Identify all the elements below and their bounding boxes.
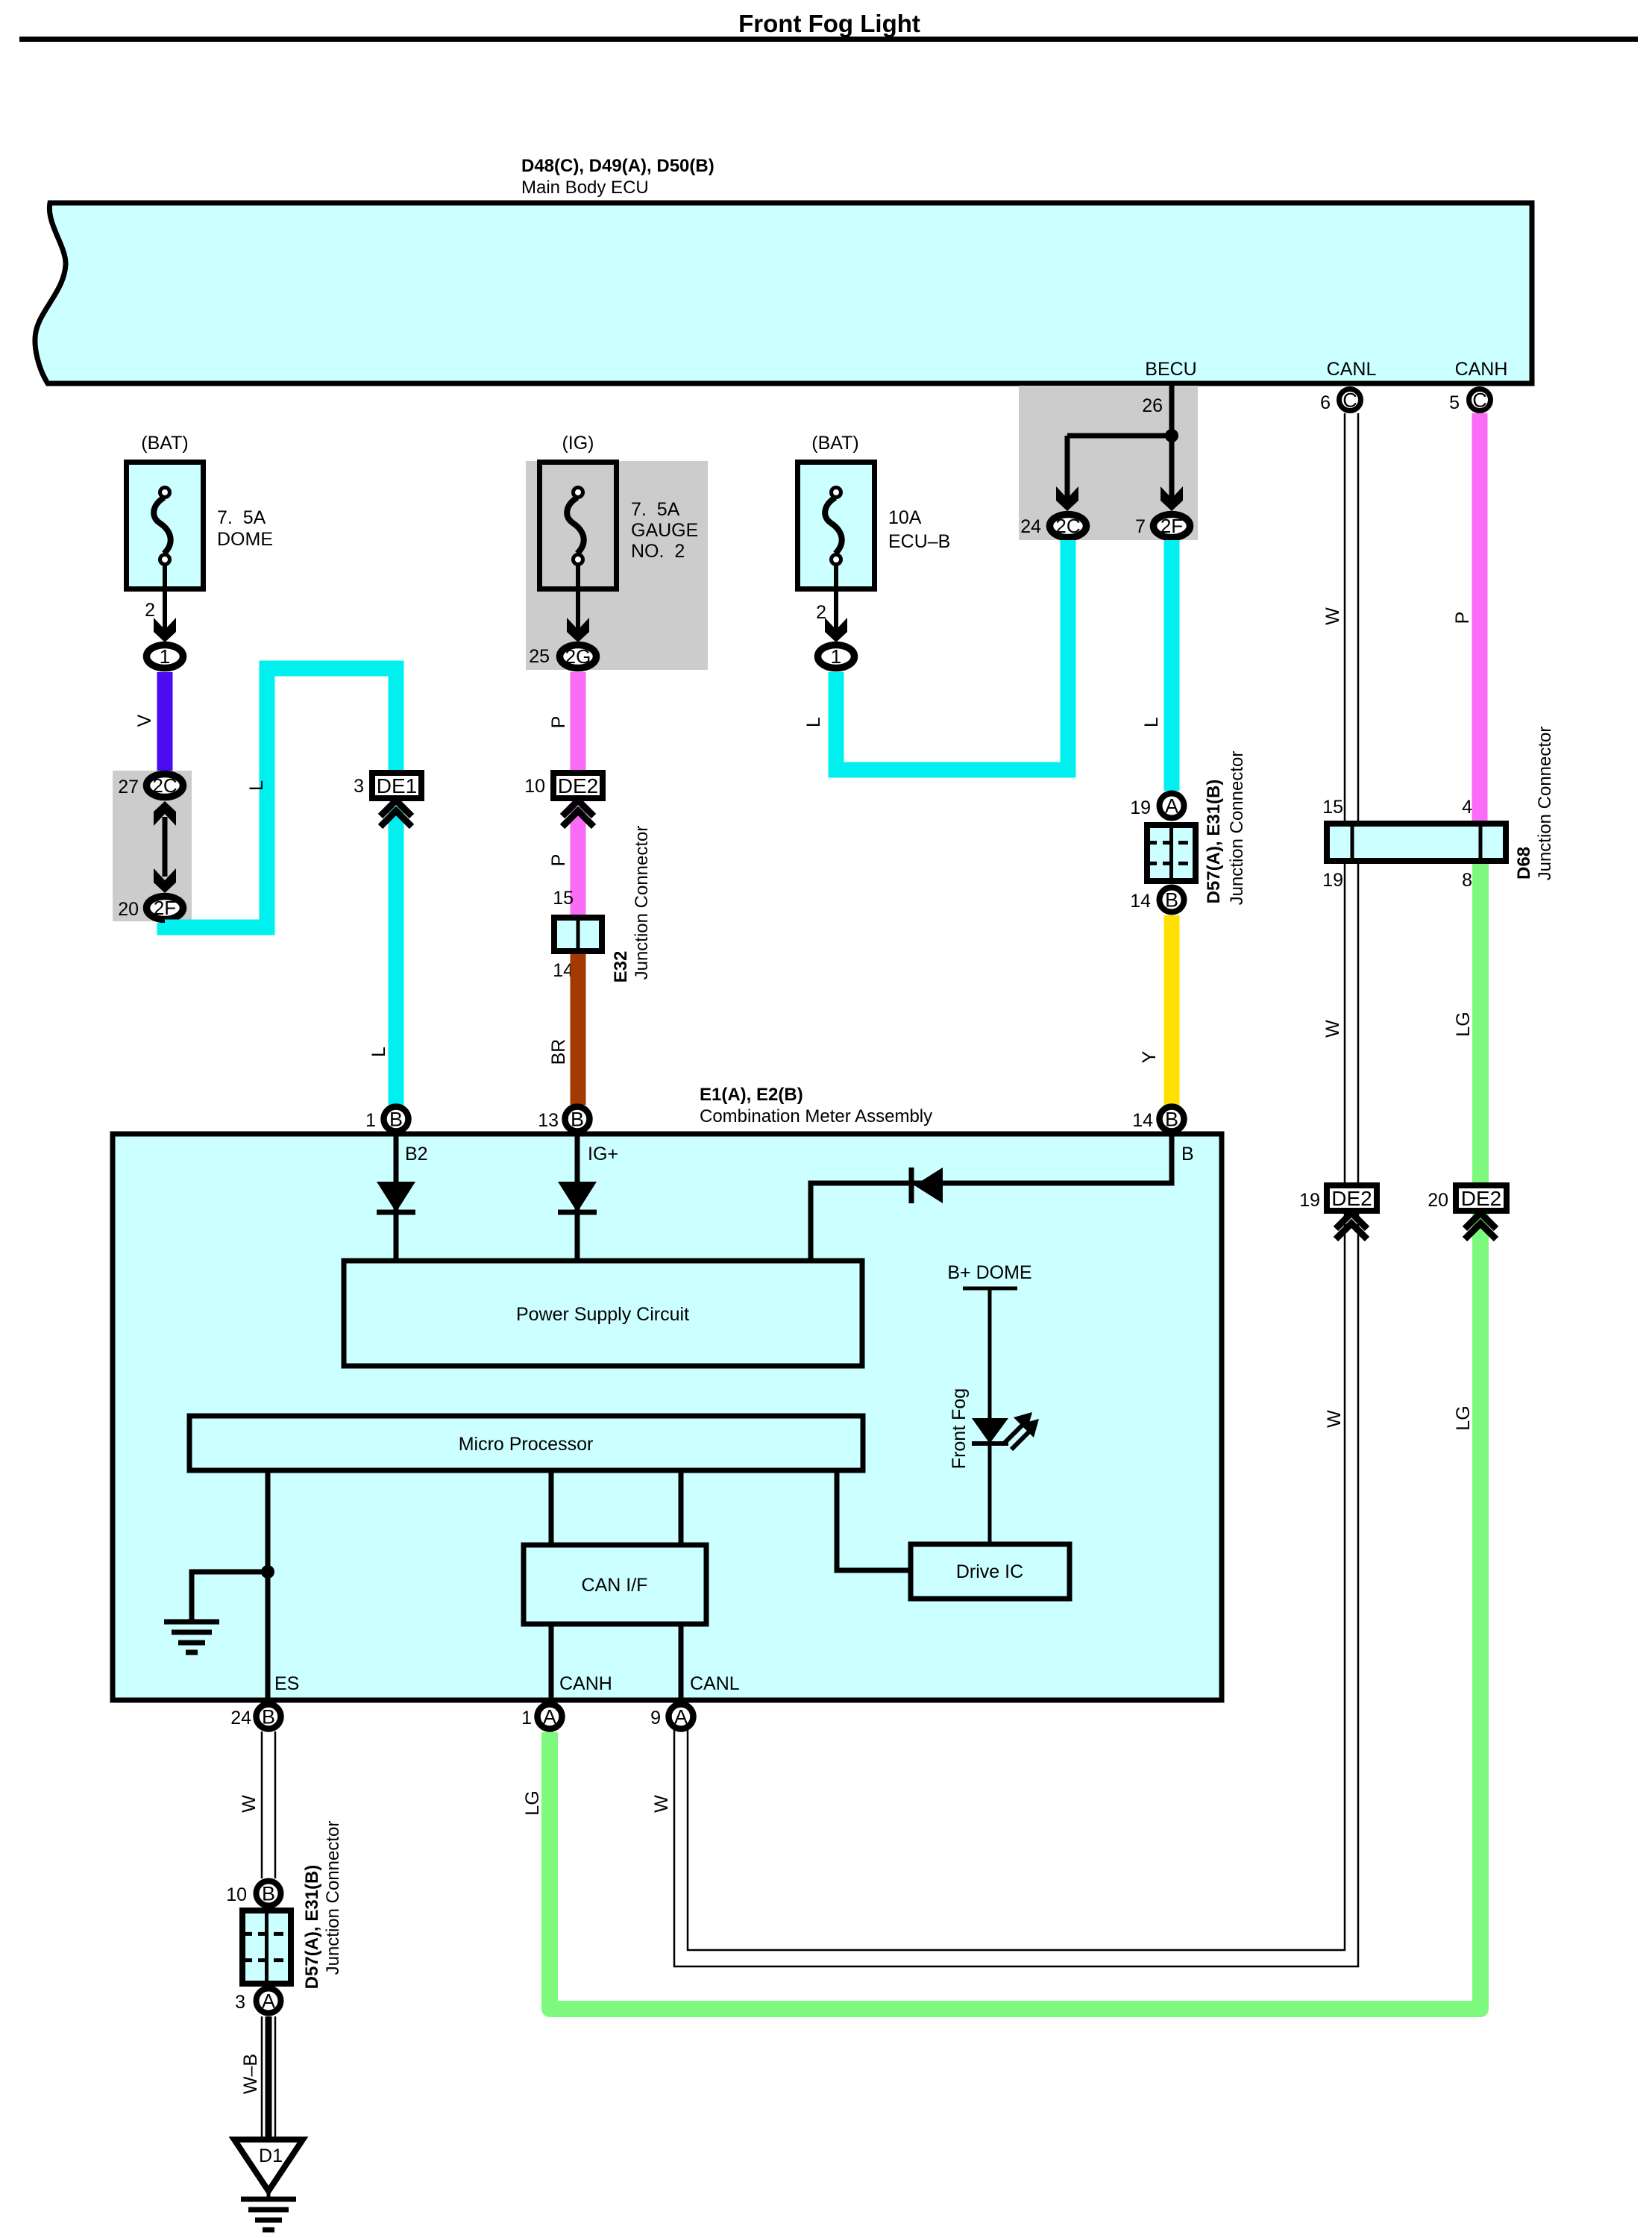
svg-text:10: 10 (524, 776, 545, 797)
connector 1 (DOME fuse output) (147, 645, 183, 668)
wire P (magenta) DE2 to E32 (571, 807, 586, 915)
wire W-B pin A to ground D1 (261, 2016, 263, 2137)
chevron under DE2 (CANL) (1336, 1213, 1367, 1229)
svg-text:B: B (1165, 889, 1178, 912)
svg-text:P: P (548, 716, 569, 729)
svg-text:19: 19 (1299, 1190, 1320, 1211)
connector A (D57 top) (1160, 794, 1184, 818)
splice DE2 (553, 773, 603, 798)
wire LG (green) D68 down, across, to meter pin 1 (550, 864, 1480, 2009)
ECU pin C (CANH) (1469, 389, 1491, 411)
svg-text:D57(A), E31(B): D57(A), E31(B) (1204, 780, 1224, 904)
chevron under DE2 (562, 800, 594, 816)
svg-text:W: W (1322, 1020, 1343, 1038)
svg-text:Power Supply Circuit: Power Supply Circuit (516, 1304, 689, 1325)
svg-text:7. 5A: 7. 5A (217, 507, 266, 528)
wire L (cyan) 2F loop to DE1 (165, 668, 396, 927)
junction dot on ES wire (261, 1565, 274, 1579)
wire Y (yellow) D57 to meter pin 14 (1164, 915, 1180, 1105)
svg-text:A: A (1165, 795, 1178, 818)
connector 2C (pass-through top) (147, 774, 183, 797)
wire: branch to 2C vertical (1065, 436, 1070, 498)
svg-text:24: 24 (230, 1708, 251, 1728)
ECU pin C (CANL) (1339, 389, 1361, 411)
wire W (white) pin 24 to D57 lower (261, 1731, 263, 1878)
svg-text:Main Body ECU: Main Body ECU (521, 178, 649, 198)
fuse F2 7.5A GAUGE NO.2 (540, 463, 617, 589)
svg-text:26: 26 (1142, 395, 1163, 416)
svg-text:DE2: DE2 (1331, 1187, 1372, 1210)
svg-text:GAUGE: GAUGE (631, 520, 698, 541)
svg-text:B: B (571, 1109, 584, 1131)
svg-text:D48(C), D49(A), D50(B): D48(C), D49(A), D50(B) (521, 156, 714, 176)
gray highlight box (BECU branch area) (1019, 386, 1198, 540)
connector 2C (ECU side) (1050, 515, 1087, 538)
svg-text:W–B: W–B (240, 2054, 261, 2094)
svg-text:(BAT): (BAT) (811, 433, 858, 454)
svg-text:A: A (262, 1990, 275, 2013)
wire P (magenta) CANH from ECU pin 5 to D68 (1472, 413, 1488, 821)
splice DE2 (LG) (1456, 1185, 1507, 1211)
wire micro to Drive IC (837, 1470, 911, 1570)
svg-text:3: 3 (235, 1992, 245, 2013)
svg-text:DE1: DE1 (377, 774, 417, 797)
svg-text:W: W (1324, 1410, 1345, 1428)
chevron under DE2 (LG) (1465, 1213, 1496, 1229)
svg-text:CANH: CANH (559, 1673, 612, 1694)
arrow into connector 2F (1161, 486, 1183, 511)
svg-text:LG: LG (522, 1790, 543, 1815)
svg-text:14: 14 (1130, 891, 1151, 912)
svg-text:DE2: DE2 (1461, 1187, 1501, 1210)
wire P (magenta) 2G to DE2 (571, 672, 586, 770)
meter pin B (B feed) (1160, 1107, 1184, 1132)
svg-text:B: B (1181, 1144, 1194, 1165)
svg-text:15: 15 (1322, 797, 1343, 818)
svg-text:7: 7 (1135, 516, 1146, 537)
wire: branch to 2C horizontal (1067, 433, 1172, 439)
Micro Processor box (189, 1416, 863, 1470)
junction connector E32 (554, 918, 602, 951)
diode D (IG+) (558, 1182, 597, 1212)
ground point D1 triangle (234, 2140, 303, 2191)
wire BR (brown) E32 to meter pin 13 (571, 954, 586, 1105)
svg-text:2: 2 (816, 602, 826, 623)
splice DE2 (CANL) (1327, 1185, 1377, 1211)
wire: BECU pin 26 vertical (1169, 383, 1175, 498)
svg-text:A: A (674, 1706, 688, 1728)
svg-text:Drive IC: Drive IC (956, 1561, 1023, 1582)
arrow into connector 2G (567, 618, 589, 642)
svg-text:CANH: CANH (1455, 359, 1508, 380)
svg-text:19: 19 (1130, 797, 1151, 818)
wire IG+ into power supply (575, 1134, 580, 1261)
svg-text:Micro Processor: Micro Processor (459, 1434, 594, 1455)
svg-text:B: B (262, 1706, 275, 1728)
svg-text:DOME: DOME (217, 529, 273, 550)
svg-text:20: 20 (118, 899, 139, 920)
svg-text:ES: ES (274, 1673, 299, 1694)
svg-text:2C: 2C (152, 774, 177, 797)
svg-text:CAN I/F: CAN I/F (582, 1575, 648, 1596)
junction dot on BECU wire (1165, 429, 1178, 442)
svg-text:LG: LG (1453, 1012, 1474, 1036)
wire W (white) CANL from ECU pin 6 to meter pin 9 (688, 413, 1345, 1950)
double-headed arrow between 2C and 2F (163, 817, 168, 877)
svg-text:2F: 2F (1161, 515, 1183, 537)
Drive IC box (911, 1544, 1070, 1599)
svg-text:7. 5A: 7. 5A (631, 499, 680, 520)
connector B (D57 bottom) (1160, 888, 1184, 912)
gray highlight box (2C/2F pass-through) (113, 771, 192, 921)
svg-text:LG: LG (1453, 1405, 1474, 1430)
svg-text:2F: 2F (154, 897, 176, 919)
fuse F1 7.5A DOME (127, 463, 204, 589)
svg-text:(IG): (IG) (562, 433, 594, 454)
svg-text:10A: 10A (888, 507, 922, 528)
svg-text:D57(A), E31(B): D57(A), E31(B) (302, 1865, 322, 1990)
svg-text:19: 19 (1322, 870, 1343, 891)
svg-text:10: 10 (226, 1884, 247, 1905)
connector 1 (ECU-B fuse output) (818, 645, 855, 668)
arrow into connector 2C (1056, 486, 1078, 511)
wire L (cyan) DE1 down to meter pin 1 (389, 807, 404, 1105)
connector 2F (ECU side) (1154, 515, 1190, 538)
meter pin B (ES out) (257, 1705, 281, 1729)
svg-text:9: 9 (650, 1708, 661, 1728)
svg-text:W: W (1322, 607, 1343, 625)
svg-text:B2: B2 (405, 1144, 428, 1165)
svg-text:CANL: CANL (1327, 359, 1377, 380)
svg-text:8: 8 (1462, 870, 1472, 891)
svg-text:D68: D68 (1514, 847, 1534, 880)
meter pin A (CANH out) (538, 1705, 562, 1729)
svg-text:NO. 2: NO. 2 (631, 541, 685, 562)
svg-text:13: 13 (538, 1110, 559, 1131)
svg-text:DE2: DE2 (558, 774, 598, 797)
svg-text:2: 2 (145, 600, 155, 621)
svg-text:Front Fog Light: Front Fog Light (738, 10, 920, 37)
svg-text:E32: E32 (611, 951, 631, 983)
svg-text:W: W (239, 1795, 260, 1813)
svg-text:E1(A), E2(B): E1(A), E2(B) (700, 1085, 803, 1105)
svg-text:3: 3 (354, 776, 364, 797)
ground (meter internal) (164, 1620, 219, 1625)
Combination Meter Assembly box U2 (113, 1134, 1222, 1700)
LED Front Fog indicator (972, 1418, 1008, 1444)
title rule (19, 37, 1638, 42)
svg-text:BR: BR (548, 1039, 569, 1065)
wire V (violet) DOME to 2C (157, 672, 173, 771)
svg-text:24: 24 (1020, 516, 1041, 537)
junction connector D57/E31 (upper) (1147, 825, 1196, 881)
svg-text:L: L (246, 780, 267, 791)
connector B (D57 lower top) (257, 1881, 281, 1906)
wire CANL micro to CAN I/F (679, 1470, 684, 1545)
svg-text:2G: 2G (565, 645, 591, 668)
svg-text:Junction Connector: Junction Connector (632, 826, 652, 980)
CAN I/F box (524, 1545, 706, 1624)
ground symbol (body ground D1) (267, 2190, 271, 2198)
svg-text:15: 15 (553, 888, 574, 909)
svg-text:(BAT): (BAT) (141, 433, 188, 454)
svg-text:1: 1 (365, 1110, 376, 1131)
svg-text:W: W (651, 1795, 672, 1813)
svg-text:Front Fog: Front Fog (949, 1388, 970, 1469)
meter pin A (CANL out) (669, 1705, 694, 1729)
svg-text:P: P (548, 854, 569, 867)
svg-text:B: B (262, 1883, 275, 1905)
svg-text:Junction Connector: Junction Connector (1227, 751, 1247, 906)
svg-text:L: L (803, 717, 824, 727)
wire CANH CAN I/F to pin 1 (549, 1624, 554, 1700)
svg-text:IG+: IG+ (588, 1144, 618, 1165)
arrow into connector 1 (ECU-B) (825, 618, 847, 642)
svg-text:Junction Connector: Junction Connector (323, 1821, 343, 1975)
diode D (B, pointing left) (914, 1167, 943, 1203)
svg-text:B: B (389, 1109, 403, 1131)
splice DE1 (372, 773, 421, 798)
svg-text:1: 1 (831, 645, 841, 668)
gray highlight box (IG fuse area) (526, 461, 708, 670)
connector A (D57 lower bottom) (257, 1989, 281, 2013)
wire L (cyan) ECU-B to 2C (836, 540, 1068, 770)
Main Body ECU box U1 (35, 203, 1532, 383)
svg-text:Y: Y (1139, 1050, 1160, 1063)
fuse F3 10A ECU-B (798, 463, 875, 589)
svg-text:14: 14 (1132, 1110, 1153, 1131)
B+ DOME supply bar (963, 1287, 1017, 1291)
svg-text:27: 27 (118, 777, 139, 797)
svg-text:2C: 2C (1055, 515, 1080, 537)
svg-text:BECU: BECU (1145, 359, 1196, 380)
svg-text:Combination Meter Assembly: Combination Meter Assembly (700, 1106, 932, 1126)
wire LED to Drive IC (988, 1444, 992, 1544)
wire CANH micro to CAN I/F (549, 1470, 554, 1545)
connector 2G (GAUGE fuse output) (560, 645, 597, 668)
arrow into connector 1 (DOME) (154, 618, 176, 642)
junction connector D68 (1327, 824, 1506, 861)
wire B+ DOME to LED (988, 1288, 992, 1418)
svg-text:25: 25 (529, 646, 550, 667)
meter pin B (B2 feed) (384, 1107, 409, 1132)
svg-text:C: C (1472, 389, 1487, 412)
svg-text:A: A (543, 1706, 556, 1728)
svg-text:CANL: CANL (690, 1673, 740, 1694)
junction connector D57/E31 (lower) (242, 1911, 291, 1984)
diode D (B2) (377, 1182, 415, 1212)
wire B2 into power supply (394, 1134, 399, 1261)
svg-text:4: 4 (1462, 797, 1472, 818)
wire to internal ground (192, 1572, 268, 1620)
svg-text:P: P (1452, 612, 1473, 624)
svg-text:1: 1 (160, 645, 170, 668)
wire B into power supply (with diode) (811, 1134, 1172, 1261)
svg-text:6: 6 (1320, 392, 1331, 413)
wire L (cyan) 2F down to D57 A (1164, 540, 1180, 791)
svg-text:L: L (368, 1047, 389, 1057)
svg-text:ECU–B: ECU–B (888, 531, 950, 552)
Power Supply Circuit box (344, 1261, 862, 1366)
svg-text:L: L (1141, 717, 1162, 727)
svg-text:B: B (1165, 1109, 1178, 1131)
svg-text:C: C (1342, 389, 1357, 412)
connector 2F (pass-through bottom) (147, 897, 183, 920)
meter pin B (IG+ feed) (565, 1107, 590, 1132)
svg-text:5: 5 (1449, 392, 1460, 413)
chevron under DE1 (380, 800, 412, 816)
svg-text:Junction Connector: Junction Connector (1535, 727, 1555, 881)
svg-text:1: 1 (521, 1708, 532, 1728)
svg-text:B+ DOME: B+ DOME (947, 1262, 1031, 1283)
svg-text:V: V (134, 714, 155, 727)
svg-text:D1: D1 (259, 2145, 283, 2166)
svg-text:20: 20 (1428, 1190, 1448, 1211)
wire CANL CAN I/F to pin 9 (679, 1624, 684, 1700)
wire ES from micro processor to pin 24 (266, 1470, 271, 1700)
